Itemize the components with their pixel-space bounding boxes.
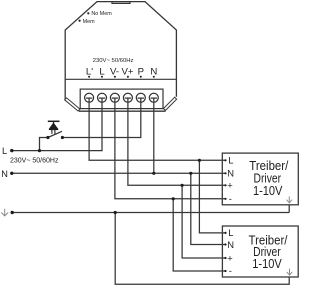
svg-text:Mem: Mem [83,19,95,25]
svg-text:L: L [228,227,233,238]
svg-text:V+: V+ [121,66,133,77]
node V- branch [172,197,175,200]
driver U2 box [222,226,298,277]
svg-text:230V~ 50/60Hz: 230V~ 50/60Hz [93,58,134,64]
svg-text:P: P [138,66,144,77]
wire end dot U1 N [224,172,226,174]
push-button blade [48,131,62,137]
dimmer module body (octagon housing) [65,2,176,99]
wire end dot U2 L [224,232,226,234]
wire branch V+ down to driver U2 plus [182,185,226,258]
driver U1 terminal labels [227,155,234,204]
wire L' down from terminal 1 to driver U1 terminal L [89,98,226,160]
wire end dot U2 minus [224,270,226,272]
wire end dot U2 N [224,243,226,245]
wire end dot U2 plus [224,257,226,259]
svg-text:N: N [150,66,157,77]
mounting claw right [164,97,177,110]
node switch contact right [61,136,64,139]
mem jumper labels [83,11,113,25]
push-button branch from L line [40,138,48,151]
wire end dot U1 minus [224,198,226,200]
node PE input [11,211,14,214]
screw terminal 1 (L') [85,93,94,102]
terminal labels L' L V- V+ P N [86,66,157,77]
svg-text:1-10V: 1-10V [252,256,282,271]
svg-text:L: L [99,66,105,77]
screw terminal 5 (P) [136,93,145,102]
svg-text:N: N [227,168,234,179]
terminal label dots [88,76,155,78]
wire end dot U1 plus [224,184,226,186]
svg-text:L': L' [86,66,93,77]
wire end dot U1 L [224,159,226,161]
svg-text:-: - [229,193,232,204]
wire branch V- down to driver U2 minus [173,199,226,271]
mains N line to driver U1 terminal N [12,172,226,174]
svg-text:No Mem: No Mem [91,11,112,17]
node switch-L junction [38,149,41,152]
node switch contact left [46,136,49,139]
wire branch N down to driver U2 terminal N [191,173,226,244]
node L input [10,149,13,152]
housing bottom edge [79,110,166,112]
svg-text:-: - [229,265,232,276]
earth riser to driver U1 [288,205,290,213]
mem jumper dots [79,12,90,22]
svg-text:230V~ 50/60Hz: 230V~ 50/60Hz [10,157,59,164]
inner cover line [66,78,177,80]
top notch [112,2,130,4]
screw terminal 4 (V+) [123,93,132,102]
svg-text:+: + [227,180,233,191]
node N branch [189,172,192,175]
node PE branch [114,211,117,214]
screw terminal 3 (V-) [110,93,119,102]
terminal block [80,89,163,109]
wire L terminal 2 down to mains L line [12,98,102,151]
svg-text:V-: V- [110,66,119,77]
wire branch L' down to driver U2 terminal L [199,160,225,233]
node L' branch [198,159,201,162]
screw terminal 6 (N) [149,93,158,102]
driver U2 terminal labels [227,227,234,276]
svg-text:+: + [227,252,233,263]
node V+ branch [181,184,184,187]
driver U2 earth arrow [287,269,292,276]
wire P terminal 5 down to push-button [62,98,140,137]
driver U1 earth arrow [287,196,292,203]
wire N terminal 6 down to N line [153,98,155,173]
earth arrow symbol (left) [1,209,8,216]
wire V- terminal 3 down to driver U1 minus [115,98,226,199]
driver U1 box [222,153,298,205]
push-button S1 actuator [48,121,60,134]
svg-text:1-10V: 1-10V [253,183,283,198]
svg-text:L: L [2,146,7,156]
node N input [10,172,13,175]
driver U1 texts [249,158,288,198]
earth branch down to bottom run [115,213,289,285]
earth PE line [12,212,289,214]
screw terminal 2 (L) [98,93,107,102]
mounting claw left [65,98,80,111]
svg-text:N: N [227,239,234,250]
node N wire junction [152,172,155,175]
wire V+ terminal 4 down to driver U1 plus [128,98,226,185]
svg-text:N: N [1,169,8,179]
driver U2 texts [249,232,288,271]
svg-text:L: L [228,155,233,166]
